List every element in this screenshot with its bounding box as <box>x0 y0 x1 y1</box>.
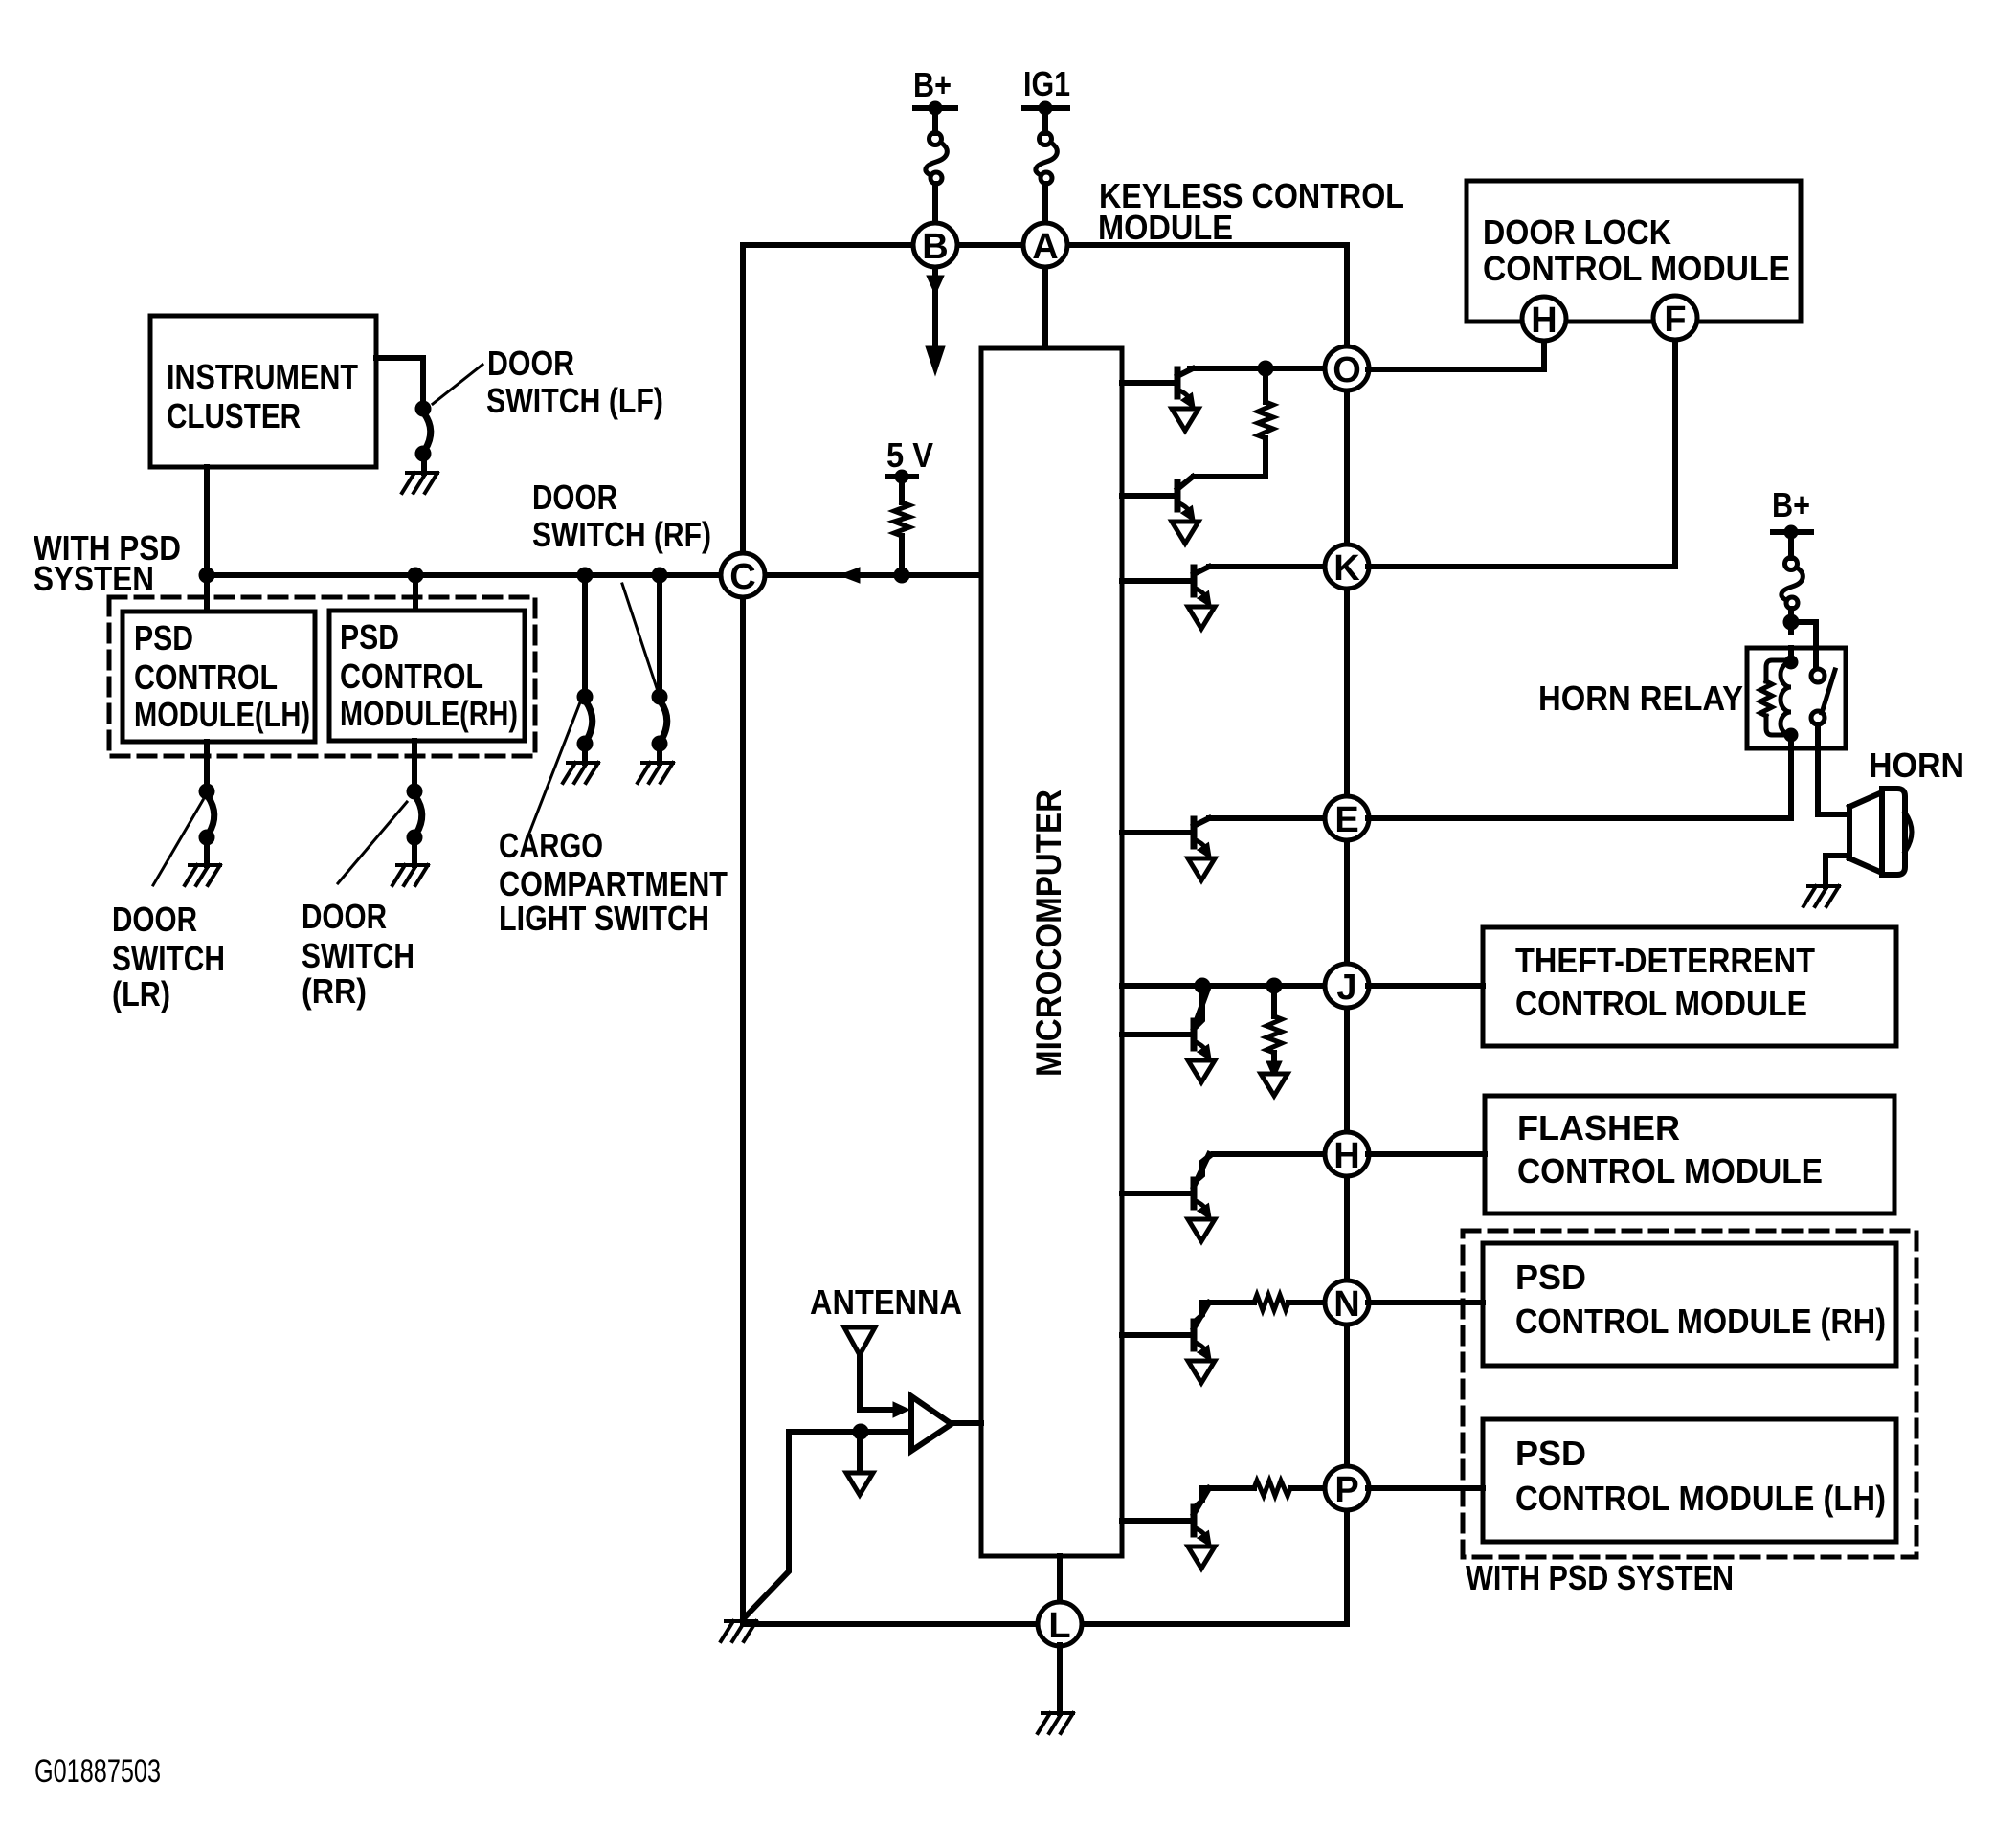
svg-text:MODULE(LH): MODULE(LH) <box>134 695 310 734</box>
wire <box>412 845 417 865</box>
ground (door switch LR) <box>185 865 220 885</box>
wire <box>1195 1488 1254 1507</box>
svg-text:E: E <box>1334 800 1358 840</box>
wire: H to flasher module <box>1368 1151 1485 1157</box>
switch: door switch LR <box>199 784 214 845</box>
antenna <box>844 1327 875 1410</box>
box: DOOR LOCK CONTROL MODULE <box>1467 181 1801 322</box>
wire: left vertical bus <box>740 245 746 1622</box>
svg-text:F: F <box>1664 300 1686 340</box>
svg-text:O: O <box>1333 350 1361 390</box>
connector pin L <box>1038 1602 1082 1646</box>
svg-text:DOOR LOCK: DOOR LOCK <box>1483 212 1671 252</box>
relay coil parallel resistor <box>1760 660 1791 735</box>
junction <box>199 568 214 583</box>
svg-text:THEFT-DETERRENT: THEFT-DETERRENT <box>1515 941 1815 980</box>
svg-text:G01887503: G01887503 <box>34 1753 161 1790</box>
amplifier <box>911 1396 952 1451</box>
transistor Q8 (to P line) <box>1122 1488 1217 1569</box>
leader line <box>338 802 407 883</box>
box: INSTRUMENT CLUSTER <box>150 316 376 467</box>
ground (door switch RR) <box>392 865 428 885</box>
svg-text:MODULE(RH): MODULE(RH) <box>340 694 518 733</box>
svg-text:HORN: HORN <box>1869 746 1964 785</box>
junction <box>1266 978 1282 993</box>
wire: relay coil to E row <box>1368 748 1791 818</box>
junction <box>577 568 593 583</box>
connector pin K <box>1325 545 1369 589</box>
svg-text:MODULE: MODULE <box>1098 208 1233 247</box>
svg-text:WITH PSD SYSTEN: WITH PSD SYSTEN <box>1466 1558 1734 1597</box>
svg-text:CONTROL MODULE: CONTROL MODULE <box>1517 1151 1823 1191</box>
wire: antenna to amplifier <box>860 1402 909 1417</box>
wire <box>899 536 905 575</box>
connector pin N <box>1325 1280 1369 1325</box>
connector pin C <box>721 553 765 597</box>
wire: bus to cargo compartment light switch <box>582 575 588 689</box>
power feed B+ (top) <box>913 65 955 119</box>
wire: PSD LH to door switch LR <box>204 742 210 791</box>
svg-text:HORN RELAY: HORN RELAY <box>1538 679 1743 718</box>
label: DOOR SWITCH (LR) <box>112 900 225 1013</box>
svg-text:CARGO: CARGO <box>499 826 603 865</box>
arrow toward C <box>840 568 860 583</box>
relay coil <box>1781 648 1798 748</box>
svg-text:(RR): (RR) <box>302 971 367 1011</box>
wire: N to PSD module RH <box>1368 1300 1483 1305</box>
svg-text:CONTROL: CONTROL <box>134 657 278 697</box>
svg-text:B: B <box>922 227 948 267</box>
wire: ground reference to amplifier <box>789 1429 911 1435</box>
wire: N output row <box>1288 1300 1326 1305</box>
connector pin J <box>1325 964 1369 1008</box>
relay switch <box>1811 669 1835 724</box>
svg-text:L: L <box>1048 1606 1070 1646</box>
svg-text:N: N <box>1333 1284 1359 1325</box>
wire <box>1194 474 1266 479</box>
connector pin F (door lock module) <box>1653 296 1697 340</box>
svg-text:A: A <box>1032 227 1058 267</box>
resistor (J pull-down) <box>1266 1016 1282 1053</box>
wire: instrument cluster to door switch LF <box>376 358 423 401</box>
resistor (N series) <box>1254 1295 1288 1310</box>
svg-text:IG1: IG1 <box>1023 64 1070 103</box>
junction <box>408 568 423 583</box>
connector pin E <box>1325 796 1369 840</box>
wire <box>1263 438 1268 477</box>
connector pin P <box>1325 1466 1369 1510</box>
horn <box>1849 789 1912 875</box>
connector pin H <box>1325 1132 1369 1176</box>
switch: door switch RR <box>407 784 422 845</box>
wire <box>657 751 662 763</box>
wire: branch to relay switch contact <box>1791 622 1816 670</box>
wire: arrow continuation below B <box>926 266 945 375</box>
ground (horn) <box>1804 886 1839 906</box>
wire: bus to door switch RF <box>657 575 662 689</box>
wire: P to PSD module LH <box>1368 1485 1483 1491</box>
dashed box: with PSD systen (left) <box>109 597 535 756</box>
wire <box>1788 609 1794 632</box>
wire: P output row <box>1290 1485 1326 1491</box>
junction <box>1258 361 1273 376</box>
wire <box>204 845 210 865</box>
svg-text:H: H <box>1333 1136 1359 1176</box>
svg-text:CONTROL: CONTROL <box>340 657 483 696</box>
junction <box>1195 978 1210 993</box>
box: FLASHER CONTROL MODULE <box>1485 1096 1894 1213</box>
power feed B+ (horn relay) <box>1772 485 1811 543</box>
arrowhead <box>1266 1061 1282 1079</box>
box: MICROCOMPUTER <box>981 348 1122 1556</box>
wire <box>1271 1053 1277 1070</box>
power feed IG1 <box>1023 64 1070 119</box>
wire: top rail through B and A <box>743 242 1347 248</box>
leader line <box>622 584 658 691</box>
wire: amplifier to microcomputer <box>952 1420 981 1426</box>
ground (door switch LF) <box>402 473 437 493</box>
junction <box>853 1424 868 1439</box>
svg-text:SWITCH: SWITCH <box>302 936 414 975</box>
junction <box>894 568 909 583</box>
svg-text:CONTROL MODULE (LH): CONTROL MODULE (LH) <box>1515 1479 1886 1518</box>
wire <box>1042 184 1048 226</box>
box: HORN RELAY <box>1747 648 1846 748</box>
transistor Q1 (to O line) <box>1122 368 1200 431</box>
connector pin A <box>1023 223 1067 267</box>
svg-text:P: P <box>1334 1470 1358 1510</box>
svg-text:SWITCH: SWITCH <box>112 939 225 978</box>
wire: bus to PSD control module RH <box>413 575 418 611</box>
svg-text:SWITCH (LF): SWITCH (LF) <box>486 381 663 420</box>
fuse (IG1 feed) <box>1042 113 1048 133</box>
transistor Q5 (to J line) <box>1122 986 1217 1082</box>
resistor (P series) <box>1254 1481 1290 1496</box>
svg-text:DOOR: DOOR <box>487 344 574 383</box>
wire: down-left to main ground <box>744 1432 789 1618</box>
transistor Q3 (to K line) <box>1122 567 1217 629</box>
power tap 5 V with resistor <box>886 435 933 502</box>
wire <box>1271 986 1277 1016</box>
transistor Q2 <box>1122 477 1200 544</box>
svg-text:5 V: 5 V <box>886 435 933 475</box>
svg-text:DOOR: DOOR <box>112 900 197 939</box>
wire: J output row <box>1122 983 1326 989</box>
svg-text:B+: B+ <box>1772 485 1810 524</box>
svg-text:B+: B+ <box>913 65 952 104</box>
wire <box>1263 368 1268 402</box>
svg-text:LIGHT SWITCH: LIGHT SWITCH <box>499 899 709 938</box>
svg-text:INSTRUMENT: INSTRUMENT <box>167 357 358 396</box>
leader line <box>153 800 203 885</box>
wire: L to ground <box>1057 1645 1063 1713</box>
wire: corner down to O <box>1344 245 1350 368</box>
switch: door switch RF <box>652 689 667 751</box>
svg-text:SYSTEN: SYSTEN <box>34 559 154 598</box>
wire: bottom rail to L <box>743 1621 1347 1627</box>
resistor (5V pull-up) <box>894 502 909 536</box>
svg-text:FLASHER: FLASHER <box>1517 1108 1680 1147</box>
label: KEYLESS CONTROL MODULE <box>1098 176 1404 247</box>
leader line <box>527 702 580 840</box>
connector pin B <box>913 223 957 267</box>
wire: PSD RH to door switch RR <box>412 741 417 791</box>
wire <box>857 1432 863 1468</box>
wire: bus to PSD control module LH <box>204 575 210 612</box>
svg-text:PSD: PSD <box>134 618 193 657</box>
leader line <box>433 365 482 404</box>
wire: E output row <box>1209 815 1326 821</box>
box: PSD CONTROL MODULE (RH) <box>1483 1243 1896 1366</box>
svg-text:DOOR: DOOR <box>532 478 617 517</box>
wire: H output row <box>1196 1154 1326 1181</box>
switch: cargo light switch <box>577 689 593 751</box>
svg-text:CLUSTER: CLUSTER <box>167 396 301 435</box>
wire <box>421 461 427 473</box>
ground (cargo light switch) <box>563 763 598 783</box>
svg-text:DOOR: DOOR <box>302 897 387 936</box>
ground (L) <box>1038 1713 1073 1733</box>
svg-text:(LR): (LR) <box>112 974 170 1013</box>
svg-text:MICROCOMPUTER: MICROCOMPUTER <box>1029 790 1068 1077</box>
label: CARGO COMPARTMENT LIGHT SWITCH <box>499 826 728 938</box>
svg-text:CONTROL MODULE: CONTROL MODULE <box>1483 249 1790 288</box>
wire: K output row <box>1209 564 1326 569</box>
wire: A to microcomputer <box>1042 266 1048 350</box>
box: PSD CONTROL MODULE (LH) <box>1483 1419 1896 1542</box>
svg-text:PSD: PSD <box>340 617 399 657</box>
wire: K to pin F of door lock module <box>1368 339 1675 567</box>
connector pin H (door lock module) <box>1522 297 1566 341</box>
wire: O to pin H of door lock module <box>1368 340 1544 369</box>
wire: instrument cluster down to bus <box>204 467 210 575</box>
ground arrow (J pull-down) <box>1261 1074 1288 1096</box>
wire <box>1195 1303 1254 1322</box>
label: DOOR SWITCH (RR) <box>302 897 414 1011</box>
box: PSD CONTROL MODULE (RH) <box>329 611 525 741</box>
switch: door switch LF <box>415 401 431 461</box>
wire <box>932 184 938 226</box>
wire: horn to ground <box>1826 856 1849 886</box>
svg-text:ANTENNA: ANTENNA <box>810 1282 962 1322</box>
wire: O output row <box>1190 366 1326 371</box>
dashed box: with PSD systen (right) <box>1463 1231 1916 1557</box>
svg-text:J: J <box>1336 968 1356 1008</box>
wire: J to theft-deterrent module <box>1368 983 1483 989</box>
junction <box>1783 614 1799 630</box>
wire: relay switch to horn <box>1818 724 1848 814</box>
wire: ground-side bus <box>207 572 981 578</box>
connector pin O <box>1325 346 1369 390</box>
svg-text:H: H <box>1531 301 1557 341</box>
box: THEFT-DETERRENT CONTROL MODULE <box>1483 927 1896 1046</box>
svg-text:PSD: PSD <box>1515 1434 1586 1473</box>
label: DOOR SWITCH (LF) <box>486 344 663 420</box>
svg-text:C: C <box>729 557 755 597</box>
transistor Q4 (to E line) <box>1122 818 1217 880</box>
resistor (Q2 collector to O line) <box>1258 402 1273 438</box>
svg-text:COMPARTMENT: COMPARTMENT <box>499 864 728 903</box>
svg-text:CONTROL MODULE: CONTROL MODULE <box>1515 984 1807 1023</box>
wire <box>582 751 588 763</box>
wire: Q5 collector drop <box>1196 986 1202 1027</box>
box: PSD CONTROL MODULE (LH) <box>123 612 315 742</box>
ground (main, bottom left) <box>721 1621 756 1641</box>
transistor Q7 (to N line) <box>1122 1303 1217 1383</box>
ground (door switch RF) <box>638 763 673 783</box>
fuse (horn relay B+) <box>1788 538 1794 558</box>
svg-text:CONTROL MODULE (RH): CONTROL MODULE (RH) <box>1515 1302 1886 1341</box>
transistor Q6 (to H line) <box>1122 1154 1217 1241</box>
label: DOOR SWITCH (RF) <box>532 478 711 554</box>
ground arrow (antenna input) <box>846 1473 873 1495</box>
fuse (B+ feed) <box>932 113 938 133</box>
svg-text:K: K <box>1333 548 1360 589</box>
svg-text:SWITCH (RF): SWITCH (RF) <box>532 515 711 554</box>
label: WITH PSD SYSTEN (left) <box>34 528 181 598</box>
junction <box>652 568 667 583</box>
wire: microcomputer to L <box>1057 1556 1063 1624</box>
wire: main vertical bus O-K-E-J-H-N-P <box>1344 368 1350 1624</box>
svg-text:PSD: PSD <box>1515 1258 1586 1297</box>
